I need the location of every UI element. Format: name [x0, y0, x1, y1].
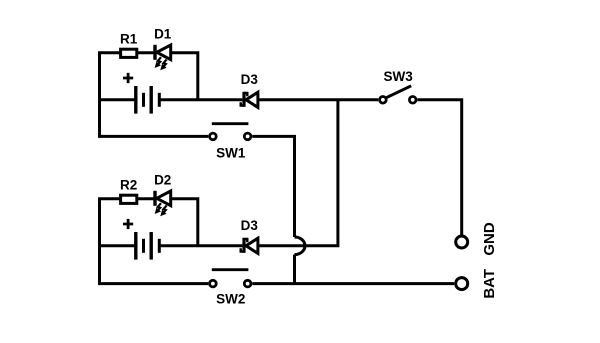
battery BT2 — [123, 219, 159, 260]
wire: R2 to D2 — [138, 197, 154, 200]
battery BT1 — [123, 73, 159, 114]
wire: D2 to battery BT2 plus rail (right vertical) — [171, 199, 198, 246]
resistor R2 — [121, 195, 137, 203]
wire hop: jump over D3 net — [295, 237, 306, 255]
wire: SW3 to GND terminal — [417, 100, 461, 236]
diode D3 (top, schottky) — [241, 92, 258, 108]
wire: battery BT2 positive to diode D3 (bottom) — [159, 244, 242, 247]
wire: battery BT1 positive to diode D3 (top) — [159, 98, 242, 101]
svg-text:GND: GND — [481, 222, 498, 256]
wire: battery BT1 negative to left vertical — [100, 98, 137, 101]
svg-text:R2: R2 — [120, 178, 137, 193]
wire: R1 to D1 — [138, 51, 154, 54]
svg-text:D1: D1 — [154, 26, 172, 41]
resistor R1 — [121, 49, 137, 57]
svg-text:D2: D2 — [154, 172, 171, 187]
svg-text:R1: R1 — [120, 32, 138, 47]
LED D1 — [155, 45, 171, 60]
svg-text:SW2: SW2 — [216, 292, 245, 307]
svg-text:SW3: SW3 — [383, 69, 413, 84]
wire: diode D3 (top) to switch SW3 — [258, 98, 378, 101]
terminal BAT — [456, 278, 468, 290]
wire: SW1 output down to bottom rail (upper part) — [252, 136, 294, 237]
diode D3 (bottom, schottky) — [241, 238, 258, 254]
switch SW1 (pushbutton) — [210, 124, 251, 140]
terminal GND — [456, 236, 468, 248]
svg-text:BAT: BAT — [481, 269, 498, 299]
svg-text:SW1: SW1 — [216, 146, 246, 161]
LED D2 — [155, 191, 171, 206]
wire: hop to bottom rail (lower part) — [293, 255, 296, 284]
LED D2 emission arrows — [155, 203, 166, 215]
svg-text:D3: D3 — [241, 218, 259, 233]
wire: D1 to battery BT1 plus rail (right vertical) — [171, 53, 198, 100]
svg-text:D3: D3 — [241, 72, 259, 87]
wire: bottom rail SW2 to BAT terminal — [252, 282, 454, 285]
wire: circuit2 left loop (top wire, left vertical, to SW2) — [100, 199, 209, 284]
wire: battery BT2 negative to left vertical — [100, 244, 137, 247]
wire: circuit1 left loop (top wire, left vertical, to SW1) — [100, 53, 209, 137]
switch SW2 (pushbutton) — [210, 270, 251, 287]
LED D1 emission arrows — [155, 57, 166, 69]
switch SW3 — [380, 86, 416, 103]
wire: diode D3 (bottom) output joining SW3 net — [258, 100, 338, 246]
